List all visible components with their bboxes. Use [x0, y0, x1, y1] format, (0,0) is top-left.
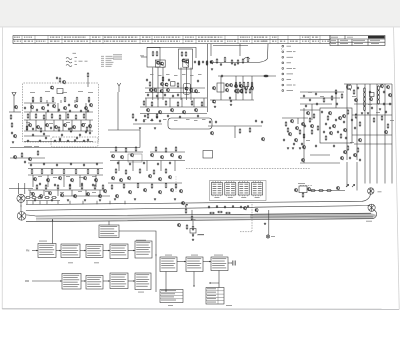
wire — [140, 113, 207, 115]
resistor R16 — [40, 127, 42, 133]
spec text — [106, 57, 114, 60]
wire — [193, 272, 195, 288]
info text — [100, 232, 114, 235]
resistor R95 — [355, 113, 357, 119]
pin text — [218, 189, 222, 192]
arrow between connectors — [20, 202, 22, 211]
transistor Q50 — [159, 111, 162, 115]
block text — [136, 248, 149, 251]
block text — [87, 283, 100, 286]
resistor R115 — [139, 168, 141, 174]
ground — [211, 68, 213, 70]
capacitor C49 — [144, 115, 146, 118]
capacitor C44 — [147, 94, 149, 97]
part label — [368, 103, 372, 106]
wire — [308, 190, 345, 192]
transistor Q35 — [104, 190, 107, 194]
wire — [89, 120, 91, 131]
resistor R114 — [125, 169, 127, 175]
table text — [161, 296, 174, 299]
wire — [132, 161, 134, 172]
transistor Q60 — [235, 90, 238, 94]
part label — [308, 91, 312, 94]
capacitor C111 — [240, 206, 242, 209]
transistor Q85 — [385, 131, 388, 135]
flow block MW AF — [135, 273, 151, 290]
pin text — [226, 187, 230, 190]
title text — [331, 42, 336, 45]
block text — [136, 278, 149, 281]
resistor R133 — [44, 197, 50, 199]
wire — [57, 201, 59, 204]
transistor Q53 — [195, 109, 198, 113]
resistor R77 — [378, 90, 380, 96]
white info box — [99, 225, 119, 238]
resistor R22 — [10, 114, 12, 120]
header divider — [287, 36, 289, 44]
capacitor C15 — [47, 104, 49, 107]
block text — [187, 262, 201, 265]
part label — [78, 190, 82, 193]
wire — [145, 98, 147, 107]
wire — [103, 250, 110, 252]
wire — [65, 112, 67, 120]
pin text — [213, 187, 217, 190]
part label — [306, 139, 310, 142]
pin text — [258, 187, 262, 190]
header text — [50, 40, 53, 43]
wire — [39, 201, 41, 204]
wire — [32, 280, 62, 282]
header text — [198, 36, 200, 39]
transistor Q80 — [380, 85, 383, 89]
wire — [24, 102, 56, 104]
capacitor C97 — [159, 120, 161, 123]
resistor R70 — [249, 88, 251, 94]
resistor R82 — [341, 93, 343, 99]
transistor Q89 — [295, 139, 298, 143]
resistor R81 — [331, 95, 333, 101]
wire — [145, 92, 200, 94]
capacitor C45 — [156, 95, 158, 98]
wire — [162, 68, 164, 101]
transistor Q44 — [154, 89, 157, 93]
block text — [187, 260, 200, 263]
resistor R41 — [156, 51, 158, 57]
part label — [182, 73, 186, 76]
transistor Q15 — [82, 124, 85, 128]
small box center — [217, 83, 224, 92]
page border left — [1, 28, 3, 310]
table text — [207, 288, 216, 291]
ground — [299, 147, 301, 149]
capacitor C2 — [47, 110, 49, 113]
resistor R128 — [318, 190, 324, 192]
capacitor C55 — [168, 79, 170, 82]
block text — [111, 283, 126, 286]
block text — [87, 254, 101, 257]
block text — [39, 244, 54, 247]
capacitor C7 — [43, 133, 45, 136]
wire — [160, 161, 162, 172]
wire — [157, 98, 159, 107]
wire — [157, 68, 159, 101]
arrowhead — [108, 280, 110, 282]
title text — [331, 39, 336, 42]
transistor Q59 — [235, 85, 238, 89]
resistor R46 — [162, 76, 164, 82]
info text — [100, 235, 117, 238]
capacitor C35 — [56, 164, 58, 167]
block text — [87, 247, 100, 250]
resistor R40 — [152, 51, 154, 57]
table text — [207, 291, 216, 294]
resistor R138 — [209, 212, 215, 214]
flow block stereo decoder — [160, 257, 177, 272]
info text — [100, 228, 114, 231]
wire — [35, 120, 37, 131]
ground — [134, 198, 136, 200]
transistor Q40 — [161, 83, 164, 87]
resistor R55 — [216, 58, 218, 64]
capacitor C5 — [80, 110, 82, 113]
header text — [272, 40, 274, 43]
ground — [287, 147, 289, 149]
flow block MW input — [62, 274, 81, 290]
transistor Q101 — [149, 175, 152, 179]
wire — [26, 120, 28, 131]
part label — [45, 190, 49, 193]
capacitor C60 — [265, 75, 267, 78]
part label — [320, 95, 324, 98]
wire — [9, 183, 33, 194]
wire — [46, 201, 48, 204]
resistor R85 — [311, 129, 313, 135]
resistor R29 — [63, 169, 65, 175]
legend text — [287, 84, 293, 87]
resistor R79 — [378, 99, 380, 105]
dashes near bus — [300, 185, 312, 187]
capacitor C68 — [351, 119, 353, 122]
part label — [78, 90, 83, 93]
transistor Q111 — [211, 132, 214, 136]
transistor Q95 — [161, 156, 164, 160]
title text — [353, 39, 365, 42]
transistor Q88 — [289, 133, 292, 137]
resistor R2 — [40, 97, 42, 103]
resistor R31 — [87, 169, 89, 175]
transistor Q47 — [190, 89, 193, 93]
spec text — [101, 63, 104, 66]
table text — [161, 289, 176, 292]
wire — [391, 84, 393, 184]
resistor R101 — [287, 127, 289, 133]
wire — [62, 120, 64, 131]
transistor Q37 — [161, 62, 164, 66]
resistor R61 — [263, 75, 269, 77]
transistor Q100 — [128, 177, 131, 181]
part label — [198, 73, 202, 76]
resistor R17 — [58, 126, 60, 132]
flow block output stage — [211, 257, 228, 271]
wire — [210, 99, 254, 101]
part label — [174, 74, 178, 77]
capacitor C87 — [357, 87, 359, 90]
part label — [194, 119, 198, 122]
header text — [14, 36, 16, 39]
transistor Q48 — [195, 90, 198, 94]
transistor Q115 — [182, 202, 185, 206]
capacitor C39 — [194, 61, 196, 64]
pin text — [244, 187, 248, 190]
part label — [202, 118, 206, 121]
capacitor C81 — [345, 137, 347, 140]
ground — [361, 112, 363, 114]
pin text — [253, 187, 257, 190]
resistor R34 — [45, 184, 47, 190]
block text — [161, 262, 175, 265]
wire — [30, 103, 32, 112]
resistor R28 — [51, 169, 53, 175]
wire — [24, 135, 50, 137]
resistor R75 — [364, 106, 366, 112]
block text — [111, 247, 125, 250]
transistor Q34 — [99, 195, 102, 199]
resistor R89 — [327, 115, 329, 121]
note text — [113, 56, 122, 59]
transistor Q11 — [46, 124, 49, 128]
resistor R135 — [185, 208, 187, 214]
symbol Y — [117, 83, 121, 92]
wire — [32, 100, 34, 103]
header text — [290, 40, 292, 43]
block text — [187, 264, 200, 267]
wire — [300, 103, 332, 105]
header divider — [61, 36, 63, 44]
resistor R48 — [151, 101, 153, 107]
block text — [212, 267, 226, 270]
table text — [207, 301, 216, 304]
wire — [28, 168, 103, 170]
wire — [32, 175, 34, 187]
capacitor C66 — [315, 145, 317, 148]
resistor R103 — [303, 133, 305, 139]
transistor Q39 — [186, 60, 189, 64]
block text — [212, 264, 225, 267]
dashed vertical center — [251, 204, 253, 231]
header table frame — [13, 36, 330, 44]
title text — [340, 39, 348, 42]
block text — [39, 246, 53, 249]
resistor R87 — [340, 133, 342, 139]
wire — [88, 100, 90, 103]
wire — [297, 118, 299, 124]
capacitor C43 — [210, 61, 212, 64]
arrowhead — [209, 261, 211, 263]
pin text — [218, 185, 222, 188]
header divider — [102, 36, 104, 44]
transistor Q52 — [183, 111, 186, 115]
header text — [185, 36, 186, 39]
resistor R116 — [153, 169, 155, 175]
capacitor C33 — [30, 164, 32, 167]
legend text — [293, 50, 296, 53]
resistor R80 — [323, 97, 325, 103]
transistor Q31 — [61, 194, 64, 198]
label 96 — [140, 55, 144, 58]
resistor R104 — [132, 113, 134, 119]
wire — [210, 44, 212, 56]
transistor Q2 — [31, 106, 34, 110]
wire — [24, 141, 93, 143]
resistor R93 — [317, 125, 319, 131]
capacitor C58 — [234, 63, 236, 66]
wire — [174, 161, 176, 172]
resistor R100 — [285, 121, 287, 127]
resistor R76 — [378, 85, 380, 91]
flow block MW demod — [110, 273, 128, 289]
capacitor C54 — [146, 79, 148, 82]
wire — [354, 143, 392, 145]
legend text — [287, 73, 294, 76]
capacitor C28 — [39, 183, 41, 186]
chip label — [228, 196, 233, 199]
transistor Q64 — [251, 87, 254, 91]
transistor Q78 — [354, 154, 357, 158]
resistor R54 — [177, 82, 179, 88]
resistor R65 — [247, 82, 249, 88]
block text — [62, 247, 76, 250]
block text — [63, 276, 77, 279]
capacitor C24 — [76, 137, 78, 140]
transistor Q49 — [147, 109, 150, 113]
wire — [268, 210, 270, 235]
transistor Q87 — [296, 127, 299, 131]
IC chip U3 — [238, 183, 249, 196]
header text — [104, 36, 106, 39]
arrowhead — [133, 280, 135, 282]
small label — [79, 60, 83, 63]
flow block MW IF — [86, 276, 103, 290]
capacitor C94 — [135, 119, 137, 122]
wire — [300, 109, 320, 111]
wire — [117, 92, 119, 130]
wire — [169, 98, 171, 107]
long dashed line — [186, 168, 310, 170]
transistor Q62 — [240, 90, 243, 94]
wire — [242, 76, 244, 100]
header divider — [309, 36, 311, 44]
header divider — [47, 36, 49, 44]
block text — [111, 285, 125, 288]
block text — [87, 252, 100, 255]
wire — [335, 92, 337, 108]
resistor R59 — [242, 58, 244, 64]
part label — [60, 191, 64, 194]
wire — [124, 201, 126, 204]
header text — [50, 36, 51, 39]
resistor R140 — [225, 212, 231, 214]
transistor Q92 — [121, 156, 124, 160]
bus cable hatched segment — [250, 213, 376, 218]
transistor Q13 — [64, 124, 67, 128]
ground — [230, 104, 232, 106]
legend text — [293, 67, 296, 70]
speaker connector symbol — [231, 261, 235, 266]
wire — [71, 120, 73, 131]
header text — [262, 40, 264, 43]
block text — [136, 285, 148, 288]
wire — [26, 210, 377, 222]
header text — [142, 40, 144, 43]
resistor R24 — [21, 152, 23, 158]
pin text — [244, 189, 248, 192]
wire — [32, 250, 38, 252]
wire — [235, 76, 237, 100]
table block S — [206, 288, 224, 305]
resistor R52 — [201, 101, 203, 107]
resistor R91 — [357, 147, 359, 153]
pin text — [213, 183, 217, 186]
resistor R4 — [64, 97, 66, 103]
small box right — [370, 93, 375, 97]
arrowhead — [84, 250, 86, 252]
wire — [28, 189, 106, 191]
spec text — [101, 61, 104, 64]
small label — [75, 60, 77, 63]
resistor R137 — [186, 224, 188, 230]
transistor Q45 — [160, 90, 163, 94]
wire — [28, 162, 103, 164]
wire — [207, 44, 209, 112]
block text — [136, 283, 149, 286]
transistor Q79 — [302, 159, 305, 163]
IC chip U1 pins — [213, 181, 221, 196]
wire — [146, 161, 148, 172]
capacitor C71 — [383, 103, 385, 106]
resistor R126 — [302, 192, 304, 198]
capacitor C105 — [255, 120, 257, 123]
resistor R125 — [249, 127, 251, 133]
wire — [193, 98, 195, 107]
arrowhead — [108, 250, 110, 252]
wire — [103, 280, 110, 282]
transistor Q9 — [29, 124, 32, 128]
wire — [282, 117, 308, 119]
capacitor C20 — [68, 128, 70, 131]
resistor R99 — [387, 123, 389, 129]
wire — [185, 204, 187, 208]
transistor Q18 — [15, 106, 18, 110]
resistor R141 — [192, 225, 194, 231]
block text — [161, 260, 174, 263]
capacitor C14 — [24, 107, 26, 110]
block text — [63, 283, 79, 286]
spec text — [101, 65, 104, 68]
chip label — [214, 196, 219, 199]
resistor R117 — [165, 168, 167, 174]
wire — [10, 147, 140, 149]
resistor R5 — [76, 97, 78, 103]
wire — [26, 194, 371, 204]
tiny label — [197, 234, 204, 237]
part label — [30, 91, 35, 94]
wire — [192, 233, 194, 237]
pin text — [239, 189, 243, 192]
capacitor C8 — [61, 134, 63, 137]
resistor R36 — [69, 184, 71, 190]
capacitor C32 — [92, 184, 94, 187]
